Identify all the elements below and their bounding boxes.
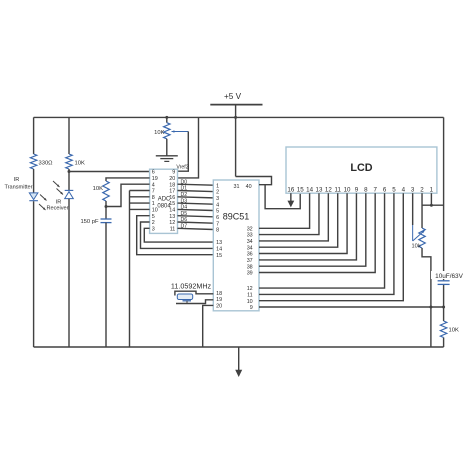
wire crystal to 89C51 pin18 xyxy=(175,291,213,295)
junction LCD pin1 x node xyxy=(430,204,433,207)
IR transmitter emission arrow 2 xyxy=(39,204,46,210)
svg-text:9: 9 xyxy=(250,305,253,311)
resistor R 330ohm xyxy=(30,154,36,169)
wire ADC pin8 stub xyxy=(130,196,150,198)
wire 89C51 pin20 to ground rail xyxy=(203,305,214,347)
svg-text:5: 5 xyxy=(392,186,396,193)
wire data bus D0-D7 ADC to 89C51 xyxy=(178,184,214,229)
svg-text:5: 5 xyxy=(216,209,219,215)
wire pin40 node to LCD pin15 xyxy=(265,185,300,209)
svg-text:11: 11 xyxy=(334,186,341,193)
wire ADC pin19 to R top xyxy=(106,178,150,181)
wire 10K to node A xyxy=(68,169,70,190)
svg-text:31: 31 xyxy=(234,184,240,190)
wire 89C51 pin9 RST to reset network xyxy=(259,306,444,308)
label 11.0592MHz xyxy=(171,282,212,291)
IC U1 89C51 body xyxy=(213,180,259,311)
svg-text:+5 V: +5 V xyxy=(224,92,242,101)
wire right rail RST-to-resistor segment xyxy=(443,307,445,321)
svg-text:Receiver: Receiver xyxy=(46,205,68,211)
svg-text:2: 2 xyxy=(216,190,219,196)
wire node B to ADC pin4 xyxy=(106,184,150,206)
node B clk junction xyxy=(105,205,108,208)
svg-text:40: 40 xyxy=(246,184,252,190)
svg-text:7: 7 xyxy=(216,221,219,227)
svg-text:4: 4 xyxy=(152,182,155,188)
svg-text:D5: D5 xyxy=(181,211,188,217)
IR receiver incoming arrow 1 xyxy=(53,181,60,187)
junction +5V stem x top rail xyxy=(234,116,237,119)
svg-text:15: 15 xyxy=(216,253,222,259)
svg-text:D7: D7 xyxy=(181,224,188,230)
svg-text:15: 15 xyxy=(169,201,175,207)
wire RV1 bottom to ground symbol xyxy=(166,139,168,156)
svg-text:1: 1 xyxy=(430,186,434,193)
svg-text:11.0592MHz: 11.0592MHz xyxy=(171,282,212,291)
wire top rail to ADC pin20 xyxy=(178,117,199,177)
potentiometer RV2 10k body xyxy=(419,228,425,248)
power +5V label xyxy=(224,92,242,101)
wire ADC pin7 stub xyxy=(130,190,150,192)
svg-text:9: 9 xyxy=(355,186,359,193)
potentiometer RV2 wiper arrow xyxy=(413,225,425,241)
svg-text:4: 4 xyxy=(216,202,219,208)
svg-text:10: 10 xyxy=(344,186,351,193)
ground arrow main xyxy=(235,347,242,377)
wire left branch top xyxy=(33,117,35,154)
wire right rail upper segment xyxy=(443,117,445,280)
resistor R 10K pullup xyxy=(66,154,72,169)
potentiometer RV1 wiper arrow xyxy=(172,130,189,133)
label clk 10K xyxy=(93,186,103,192)
svg-text:6: 6 xyxy=(152,170,155,176)
svg-text:10k: 10k xyxy=(411,244,420,250)
junction RST x right rail xyxy=(442,306,445,309)
svg-text:17: 17 xyxy=(169,189,175,195)
capacitor C 10uF/63V xyxy=(438,281,450,285)
svg-text:36: 36 xyxy=(247,252,253,258)
svg-text:14: 14 xyxy=(169,208,175,214)
svg-text:10K: 10K xyxy=(75,160,85,166)
svg-text:10K: 10K xyxy=(449,328,459,334)
wire pot RV1 top xyxy=(166,117,168,122)
IC U2 ADC0804 body xyxy=(150,169,178,233)
wire LCD pins 14-4 to 89C51 ports xyxy=(259,193,403,301)
label 10K pullup xyxy=(75,160,85,166)
svg-text:330Ω: 330Ω xyxy=(39,160,54,166)
wire node A to ADC pin6 xyxy=(69,171,150,173)
wire LED to ground rail xyxy=(33,201,35,347)
svg-text:32: 32 xyxy=(247,226,253,232)
wire LCD pin3 stub xyxy=(412,193,414,225)
svg-text:13: 13 xyxy=(169,214,175,220)
svg-text:3: 3 xyxy=(216,196,219,202)
wire 330ohm to LED xyxy=(33,169,35,193)
svg-text:15: 15 xyxy=(297,186,304,193)
wire +5V stem down to 89C51 xyxy=(235,105,237,177)
label RST 10K xyxy=(449,328,459,334)
label D0-D7 net names xyxy=(181,179,188,229)
LCD module body xyxy=(286,147,437,193)
svg-text:39: 39 xyxy=(247,271,253,277)
svg-text:D0: D0 xyxy=(181,179,188,185)
svg-text:89C51: 89C51 xyxy=(223,212,250,222)
IR receiver incoming arrow 2 xyxy=(57,189,64,195)
svg-text:20: 20 xyxy=(169,176,175,182)
svg-text:14: 14 xyxy=(306,186,313,193)
svg-text:10K: 10K xyxy=(154,130,164,136)
label 10uF/63V xyxy=(431,271,468,280)
svg-text:11: 11 xyxy=(170,226,176,232)
wire LCD pin1 stub xyxy=(430,193,432,205)
wire top +5V rail xyxy=(34,116,444,118)
svg-text:D2: D2 xyxy=(181,192,188,198)
svg-text:D1: D1 xyxy=(181,186,188,192)
svg-text:16: 16 xyxy=(169,195,175,201)
wire LCD pin2 stub to pot xyxy=(421,193,423,228)
label IR Receiver xyxy=(46,200,68,212)
svg-text:12: 12 xyxy=(169,220,175,226)
svg-text:6: 6 xyxy=(216,215,219,221)
svg-text:150 pF: 150 pF xyxy=(80,219,99,225)
svg-text:1: 1 xyxy=(152,201,155,207)
wire ADC pin1 stub xyxy=(130,202,150,204)
svg-text:16: 16 xyxy=(287,186,294,193)
svg-text:11: 11 xyxy=(247,293,253,299)
svg-text:8: 8 xyxy=(216,228,219,234)
svg-text:34: 34 xyxy=(247,245,253,251)
svg-text:38: 38 xyxy=(247,264,253,270)
svg-text:LCD: LCD xyxy=(350,162,372,174)
ground arrow LCD pin16 xyxy=(287,201,294,208)
svg-text:5: 5 xyxy=(152,214,155,220)
diode IR transmitter LED D1 xyxy=(29,193,38,201)
IC U1 pin number labels xyxy=(216,183,253,311)
svg-text:34: 34 xyxy=(247,239,253,245)
svg-text:IR: IR xyxy=(14,177,20,183)
power +5V bar xyxy=(210,104,262,106)
wire ADC gnd vertical to rail xyxy=(129,191,131,348)
svg-text:D4: D4 xyxy=(181,205,188,211)
wire receiver to ground rail xyxy=(68,199,70,347)
svg-text:10K: 10K xyxy=(93,186,103,192)
wire right rail cap-to-RST segment xyxy=(443,285,445,307)
wire RV1 wiper to ADC pin9 xyxy=(178,132,189,172)
svg-text:20: 20 xyxy=(216,304,222,310)
svg-text:D3: D3 xyxy=(181,198,188,204)
svg-text:8: 8 xyxy=(152,195,155,201)
crystal X1 body xyxy=(177,294,192,301)
wire R bottom to node B xyxy=(105,201,107,207)
svg-text:13: 13 xyxy=(216,240,222,246)
wire +5V step to 89C51 pin40 xyxy=(236,177,272,185)
label Vref2 net xyxy=(176,165,188,171)
label RV2 10k xyxy=(411,244,420,250)
svg-text:10: 10 xyxy=(152,208,158,214)
wire LCD pin16 stub xyxy=(290,193,292,201)
svg-text:19: 19 xyxy=(216,297,222,303)
IR transmitter emission arrow 1 xyxy=(40,195,47,201)
wire branch2 top xyxy=(68,117,70,154)
wire ADC pin2 to 89C51 pin14 xyxy=(141,222,214,248)
wire RV2 bottom to ground rail xyxy=(422,248,431,347)
junction RST x pot-ground wire xyxy=(429,306,432,309)
potentiometer RV1 10K body xyxy=(164,123,170,139)
svg-text:2: 2 xyxy=(420,186,424,193)
svg-text:Vref2: Vref2 xyxy=(176,165,188,171)
wire ADC pin10 stub xyxy=(130,208,150,210)
svg-text:12: 12 xyxy=(247,286,253,292)
wire 150pF to ground rail xyxy=(105,223,107,347)
node A sensor output junction xyxy=(68,170,71,173)
svg-text:33: 33 xyxy=(247,233,253,239)
ground symbol under RV1 xyxy=(156,156,178,162)
svg-text:18: 18 xyxy=(169,182,175,188)
wire ADC pin3 to 89C51 pin13 xyxy=(144,228,213,242)
IC U2 pin number labels xyxy=(152,170,176,233)
resistor R clk 10K xyxy=(103,181,109,201)
label 150 pF xyxy=(80,219,99,225)
svg-text:37: 37 xyxy=(247,258,253,264)
wire right rail resistor-to-ground segment xyxy=(443,338,445,348)
resistor R RST 10K xyxy=(440,321,446,338)
svg-text:6: 6 xyxy=(383,186,387,193)
wire bottom ground rail xyxy=(34,346,444,348)
wire ADC pin5 to 89C51 pin15 xyxy=(137,216,214,255)
label 330ohm xyxy=(39,160,54,166)
LCD pin number labels 16-1 xyxy=(287,186,433,193)
svg-text:12: 12 xyxy=(325,186,332,193)
svg-text:14: 14 xyxy=(216,247,222,253)
svg-text:10uF/63V: 10uF/63V xyxy=(435,273,463,280)
svg-text:7: 7 xyxy=(152,189,155,195)
svg-text:13: 13 xyxy=(316,186,323,193)
wire crystal to 89C51 pin19 xyxy=(176,300,213,304)
svg-text:Transmitter: Transmitter xyxy=(4,184,32,190)
svg-text:4: 4 xyxy=(402,186,406,193)
svg-text:7: 7 xyxy=(373,186,377,193)
svg-text:19: 19 xyxy=(152,176,158,182)
svg-text:3: 3 xyxy=(152,226,155,232)
svg-text:3: 3 xyxy=(411,186,415,193)
diode IR receiver photodiode D2 xyxy=(65,190,74,198)
svg-text:8: 8 xyxy=(364,186,368,193)
wire LCD pin1/2 node to right rail xyxy=(422,204,444,206)
svg-text:18: 18 xyxy=(216,291,222,297)
svg-text:10: 10 xyxy=(247,299,253,305)
label RV1 10K xyxy=(154,130,164,136)
svg-text:1: 1 xyxy=(216,183,219,189)
svg-text:2: 2 xyxy=(152,220,155,226)
label IR Transmitter xyxy=(4,177,32,190)
junction pot RV1 x top rail xyxy=(165,116,168,119)
wire node B to cap 150pF xyxy=(105,207,107,220)
capacitor C 150pF xyxy=(101,219,112,223)
svg-text:9: 9 xyxy=(172,170,175,176)
svg-text:D6: D6 xyxy=(181,217,188,223)
